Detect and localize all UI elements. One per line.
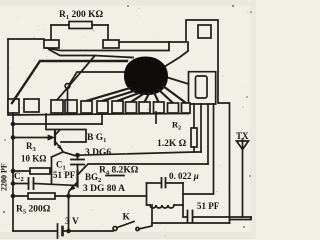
- pad P1 trace tail: [12, 94, 18, 103]
- wire pad P10 stub: [155, 112, 157, 123]
- svg-text:2200 PF: 2200 PF: [0, 163, 9, 191]
- pad for R1 right lead: [103, 40, 119, 48]
- svg-text:3 DG6: 3 DG6: [85, 148, 111, 158]
- wire via to pad P4: [67, 89, 69, 101]
- capacitor C2: [13, 178, 78, 189]
- node emitter ground junction: [67, 230, 70, 233]
- solder pad P11: [168, 103, 179, 113]
- svg-text:R1 200 KΩ: R1 200 KΩ: [59, 10, 104, 21]
- pad for R1 left lead: [44, 40, 59, 48]
- trace blob to top-right: [164, 42, 189, 84]
- capacitor C1: [71, 155, 84, 171]
- label C3: [169, 171, 199, 181]
- wire BG2 collector W3: [85, 164, 208, 167]
- solder pad P7: [112, 101, 123, 113]
- label battery: [65, 217, 79, 227]
- wire pad P6 drop: [101, 113, 103, 124]
- wire drop W2 to board: [200, 104, 202, 152]
- battery B1: [13, 224, 113, 238]
- solder pad P9: [139, 102, 150, 113]
- board corner hole: [198, 25, 211, 38]
- svg-text:3 V: 3 V: [65, 217, 79, 227]
- resistor R1: [51, 22, 108, 41]
- svg-text:TX: TX: [236, 131, 249, 141]
- node emitter R5 junction: [67, 195, 70, 198]
- wire drop W3 to board: [207, 104, 209, 164]
- wire collector drop: [46, 114, 86, 142]
- node C1 top junction: [76, 154, 79, 157]
- solder pad P2: [24, 99, 39, 112]
- node R5 left junction: [12, 195, 15, 198]
- transistor BG1: [48, 130, 74, 157]
- capacitor C4: [183, 205, 251, 223]
- label C1: [53, 160, 76, 181]
- via node: [65, 72, 127, 88]
- label R2: [157, 120, 187, 150]
- wire via through pad P4: [67, 100, 69, 113]
- node rail junction: [12, 123, 15, 126]
- board right cutout: [189, 72, 216, 114]
- resistor R1 label: [59, 10, 104, 21]
- solder pad P5: [81, 101, 92, 113]
- label K: [123, 213, 131, 223]
- solder pad P3: [51, 100, 63, 113]
- node C2 left junction: [12, 182, 15, 185]
- wire base rail: [13, 137, 48, 139]
- switch K: [113, 222, 152, 231]
- svg-text:3 DG 80 A: 3 DG 80 A: [83, 184, 125, 194]
- label C2: [0, 163, 24, 191]
- svg-text:K: K: [123, 213, 131, 223]
- svg-text:0. 022 μ: 0. 022 μ: [169, 171, 199, 181]
- solder pad P8: [126, 102, 137, 113]
- solder pad P10: [154, 102, 165, 113]
- wire left rail: [12, 113, 14, 231]
- solder pad P12: [182, 103, 191, 113]
- label BG2: [83, 172, 125, 194]
- label TX: [236, 131, 249, 141]
- label R4: [99, 166, 139, 177]
- board outline: [8, 20, 230, 223]
- resistor R4: [106, 175, 124, 177]
- wire W2: [74, 152, 201, 155]
- paper background: [0, 0, 256, 239]
- svg-text:51 PF: 51 PF: [197, 201, 220, 211]
- svg-text:51 PF: 51 PF: [53, 170, 76, 180]
- tank circuit L1: [147, 178, 184, 208]
- svg-text:1.2K Ω: 1.2K Ω: [157, 139, 187, 149]
- resistor R5: [13, 193, 147, 199]
- solder pad P4: [65, 100, 77, 113]
- transistor BG2: [69, 167, 86, 231]
- svg-text:R5 200Ω: R5 200Ω: [16, 205, 51, 216]
- wire emitter join: [51, 157, 53, 184]
- solder pad P1: [8, 99, 19, 113]
- trace from R1 left pad: [47, 42, 169, 100]
- solder pad P6: [97, 101, 108, 113]
- wire tank bottom: [151, 205, 153, 223]
- label R5: [16, 205, 51, 216]
- antenna TX: [237, 139, 249, 217]
- label BG1: [85, 133, 111, 158]
- IC blob U1: [126, 58, 167, 94]
- label R3: [21, 141, 46, 164]
- node base rail junction: [12, 136, 15, 139]
- node R3 left junction: [12, 170, 15, 173]
- svg-text:10 KΩ: 10 KΩ: [21, 154, 46, 164]
- wire tank feed: [183, 104, 214, 194]
- wire top rail: [13, 123, 102, 125]
- blob legs: [86, 86, 186, 103]
- label C4: [197, 201, 220, 211]
- trace thick bus: [12, 61, 127, 103]
- resistor R3: [13, 168, 52, 174]
- resistor R2: [191, 104, 197, 152]
